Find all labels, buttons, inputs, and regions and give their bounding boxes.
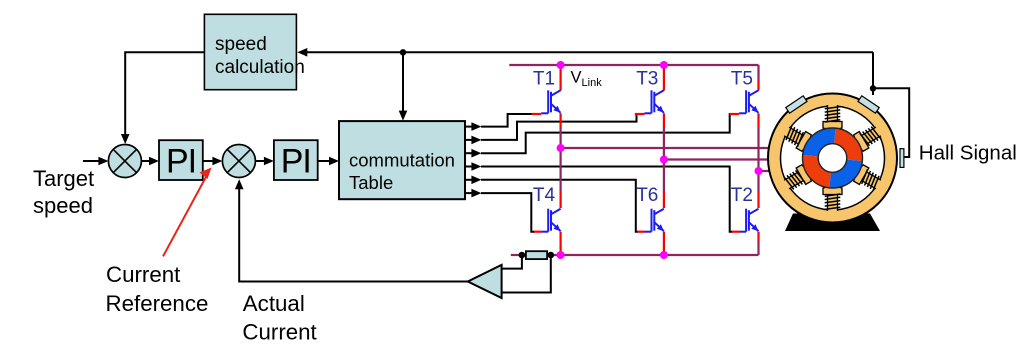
phase wire 3	[759, 170, 777, 172]
gate red stub T2	[732, 231, 739, 233]
hall sensor upper-right	[858, 96, 879, 113]
transistor T6	[645, 209, 664, 232]
svg-text:Reference: Reference	[106, 291, 209, 316]
amp input wire top	[502, 255, 522, 269]
stator pole 0	[823, 104, 842, 129]
PI controller PI1	[159, 140, 203, 180]
shunt node left	[519, 252, 526, 259]
stator pole 300	[781, 123, 813, 152]
gate wire to T6	[481, 180, 639, 232]
hall sensor right	[900, 149, 904, 168]
junction dots magenta	[557, 61, 565, 69]
commutation output arrow 3	[465, 152, 473, 154]
wire PI1 to S2	[203, 160, 213, 162]
svg-text:Current: Current	[242, 320, 317, 345]
svg-text:calculation: calculation	[215, 57, 305, 78]
wire hall signal top-right	[872, 52, 874, 95]
stator pole 60	[852, 123, 884, 152]
stator pole 240	[781, 164, 813, 193]
leg 3 vertical wires	[757, 65, 759, 79]
svg-text:Hall Signal: Hall Signal	[919, 142, 1017, 165]
stator pole 180	[823, 187, 842, 212]
svg-text:Current: Current	[106, 262, 181, 287]
svg-text:PI: PI	[281, 143, 311, 181]
rotor shaft hole	[818, 144, 847, 173]
svg-text:T3: T3	[636, 68, 658, 89]
svg-text:T6: T6	[636, 185, 658, 206]
current sense amplifier	[468, 265, 502, 298]
transistor T1	[541, 90, 560, 113]
red annotation arrow	[163, 176, 207, 256]
stator pole 120	[852, 164, 884, 193]
motor base	[785, 214, 880, 232]
transistor T5	[739, 90, 758, 113]
svg-text:T4: T4	[533, 185, 556, 206]
shunt resistor stub	[511, 254, 523, 256]
V_Link bus	[509, 64, 758, 66]
leg 1 vertical wires	[559, 65, 561, 91]
gate red stub T6	[637, 231, 644, 233]
svg-text:Actual: Actual	[243, 291, 305, 316]
wire speed-calc output to S1	[125, 52, 204, 136]
svg-text:commutation: commutation	[349, 149, 455, 170]
node junction on feedback	[400, 49, 406, 55]
gate wire to T5	[481, 114, 732, 153]
bottom DC rail	[552, 254, 759, 256]
wire hall feedback to speed-calc	[306, 51, 873, 53]
PI controller PI2	[274, 140, 318, 180]
commutation output arrow 5	[465, 179, 473, 181]
shunt resistor	[526, 251, 547, 259]
gate wire to T3	[481, 114, 638, 140]
commutation output arrow 6	[465, 192, 473, 194]
summing junction S1	[108, 145, 141, 178]
amp input wire bottom	[502, 255, 551, 293]
transistor T4	[541, 209, 560, 232]
hall sensor upper-left	[786, 96, 807, 113]
rotor magnets	[833, 128, 863, 161]
motor outer ring	[768, 94, 897, 223]
phase wire 2	[664, 158, 776, 160]
gate wire to T4	[481, 193, 535, 232]
leg 2 vertical wires	[663, 65, 665, 91]
shunt node right	[548, 252, 555, 259]
svg-text:T5: T5	[731, 68, 753, 89]
speed calculation block	[204, 14, 296, 89]
svg-text:Target: Target	[33, 166, 94, 191]
svg-text:speed: speed	[33, 193, 93, 218]
phase wire 1	[561, 147, 776, 149]
svg-text:PI: PI	[166, 143, 196, 181]
svg-text:T1: T1	[533, 68, 555, 89]
transistor T3	[645, 90, 664, 113]
svg-text:Table: Table	[349, 172, 393, 193]
transistor T2	[739, 209, 758, 232]
wire target-speed input	[83, 160, 100, 162]
commutation table block	[339, 121, 465, 199]
wire S2 to PI2	[255, 160, 265, 162]
wire PI2 to commutation table	[318, 160, 330, 162]
gate red stub T4	[534, 231, 541, 233]
svg-text:speed: speed	[215, 34, 267, 55]
svg-text:T2: T2	[731, 185, 753, 206]
gate wire to T1	[481, 114, 532, 127]
wire junction down to commutation table	[402, 52, 404, 112]
gate red stub T5	[729, 113, 739, 115]
gate red stub T3	[635, 113, 645, 115]
wire S1 to PI1	[141, 160, 150, 162]
summing junction S2	[222, 145, 255, 178]
commutation output arrow 1	[465, 126, 473, 128]
commutation output arrow 4	[465, 166, 473, 168]
commutation output arrow 2	[465, 139, 473, 141]
gate wire to T2	[481, 167, 733, 232]
actual current feedback wire	[239, 188, 468, 282]
gate red stub T1	[532, 113, 542, 115]
